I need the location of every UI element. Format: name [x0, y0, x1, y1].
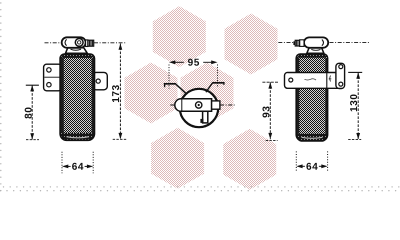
left dryer top cap [62, 37, 86, 48]
right dryer bottle body [296, 54, 327, 141]
left cap threaded fitting [86, 40, 94, 47]
right dryer strap bracket [284, 63, 344, 88]
top view bracket end lug [212, 101, 220, 109]
right dryer neck [307, 48, 324, 54]
left dryer bottle body [60, 54, 94, 141]
dimension 95 [169, 59, 218, 89]
top view center bolt [196, 102, 202, 108]
top view lower tab [200, 111, 207, 123]
left view centerline [45, 42, 127, 44]
strap arm left (top view) [164, 83, 187, 94]
dimension 80 [25, 85, 39, 140]
strap arm right (top view) [206, 82, 225, 92]
top view bracket plate [175, 99, 212, 111]
top view circle [180, 89, 218, 127]
dimension 93 [262, 82, 278, 140]
right dryer top cap [304, 37, 328, 47]
dimension 173 [112, 44, 126, 140]
right view centerline [278, 42, 370, 44]
watermark hexagon pattern [125, 6, 278, 190]
top view centerline [170, 104, 234, 106]
left dryer neck [66, 48, 88, 54]
right mounting tab of left dryer [93, 72, 108, 89]
page background [0, 0, 400, 192]
page edge dots [0, 2, 399, 191]
dimension 64 (right view) [296, 151, 327, 171]
right cap threaded fitting [293, 40, 304, 47]
dimension 130 [348, 72, 362, 139]
dimension 64 (left view) [62, 152, 93, 174]
left cap service port [75, 39, 83, 47]
left mounting bracket (two holes) [44, 64, 62, 91]
